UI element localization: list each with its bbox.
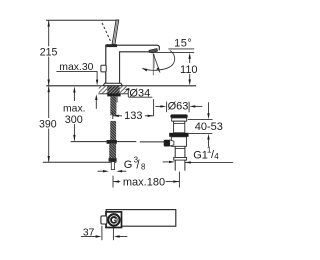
dimension max.300 vertical line bbox=[73, 92, 75, 141]
svg-text:300: 300 bbox=[65, 114, 83, 126]
svg-text:390: 390 bbox=[39, 119, 57, 131]
extension line nut top bbox=[189, 133, 213, 135]
extension line max.300 bottom / pop-up rod bbox=[71, 141, 137, 143]
svg-text:4: 4 bbox=[214, 152, 219, 161]
svg-text:Ø63: Ø63 bbox=[168, 100, 189, 112]
spout outlet / mousseur bbox=[149, 49, 158, 53]
threaded shank through deck bbox=[107, 86, 119, 94]
drain body bbox=[171, 137, 186, 147]
deck top line bbox=[46, 85, 196, 87]
G3/8 diameter arrows bbox=[98, 170, 105, 172]
left tab on body bbox=[101, 65, 106, 72]
svg-text:133: 133 bbox=[124, 110, 142, 122]
top view left stub bbox=[101, 216, 107, 224]
svg-text:max.180: max.180 bbox=[123, 177, 165, 189]
deck hatch bbox=[99, 86, 128, 93]
svg-text:G: G bbox=[124, 159, 133, 171]
deck bottom line bbox=[99, 93, 129, 95]
pop-up waste flange cap bbox=[170, 114, 187, 118]
svg-text:110: 110 bbox=[180, 64, 198, 76]
hose end fitting bbox=[109, 158, 117, 162]
flexible hose segment 1 bbox=[110, 96, 116, 115]
faucet raised lever (phantom) bbox=[102, 23, 111, 43]
drain O-ring / nut bbox=[169, 133, 188, 137]
dimension G1 1/4 bbox=[163, 161, 169, 163]
water stream tilted 15deg with arrow bbox=[153, 54, 159, 71]
faucet body and spout outline bbox=[106, 45, 160, 83]
pop-up rod stub bbox=[116, 96, 117, 102]
extension line outlet level bbox=[151, 51, 195, 53]
tailpipe coupling bbox=[174, 158, 187, 161]
mounting nut bbox=[107, 93, 120, 96]
top view body square bbox=[106, 212, 122, 228]
cone between knob and body bbox=[170, 140, 174, 146]
drain tailpipe bbox=[174, 146, 176, 170]
G3/8 threaded tail bbox=[111, 162, 114, 170]
flexible hose segment 3 bbox=[109, 144, 116, 158]
extension line top (lever max height) bbox=[46, 19, 118, 21]
max.30 lower arrow bbox=[95, 99, 97, 109]
swivel arc 15deg with arrow bbox=[143, 51, 175, 71]
dimension 110 vertical line bbox=[189, 58, 191, 80]
lever base dark bbox=[106, 44, 117, 47]
dimension 133 bbox=[153, 99, 155, 116]
extension line flange underside bbox=[188, 118, 213, 120]
pop-up rod knob bbox=[164, 140, 170, 147]
svg-text:215: 215 bbox=[40, 46, 58, 58]
top view lever bar bbox=[106, 210, 176, 227]
dimension max.180 bbox=[112, 176, 114, 188]
hose coupler on rod line bbox=[107, 140, 117, 144]
svg-text:15°: 15° bbox=[174, 38, 192, 50]
drain barrel bbox=[174, 121, 185, 133]
flange skirt bbox=[172, 118, 187, 121]
flexible hose segment 2 bbox=[110, 121, 116, 140]
top view aerator circle bbox=[108, 214, 119, 225]
dimension 390 vertical line bbox=[48, 86, 50, 161]
escutcheon bbox=[103, 83, 122, 86]
svg-text:G1: G1 bbox=[193, 149, 208, 161]
extension line bottom (hose end, 390) bbox=[43, 161, 117, 163]
svg-text:40-53: 40-53 bbox=[195, 121, 223, 133]
water stream vertical bbox=[152, 54, 154, 76]
dimension 215 vertical line bbox=[48, 21, 50, 86]
svg-text:max.: max. bbox=[63, 104, 86, 115]
dimension 40-53 bbox=[208, 102, 210, 114]
svg-text:8: 8 bbox=[141, 162, 145, 171]
